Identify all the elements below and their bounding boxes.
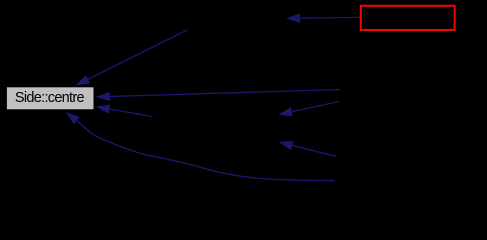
node truncated caller (red box, top right) [361,6,455,30]
node Side::centre (current node, grey box) [6,87,94,110]
edge E3: hidden right node -> Side::centre (long horizontal) [96,90,340,102]
edge E2: hidden node M1 -> Side::centre (diagonal) [76,30,188,86]
edge E4: hidden node M3 -> Side::centre (short stub) [96,104,152,116]
edge E5: hidden right node -> hidden node M3 [278,102,339,117]
svg-text:Side::centre: Side::centre [15,90,85,106]
edge E7: hidden bottom-right node -> Side::centre (long curve) [66,112,335,181]
edge E1: red box -> hidden node M1 (horizontal, top) [286,14,360,23]
edge E6: hidden right node -> hidden node M4 [279,141,337,157]
